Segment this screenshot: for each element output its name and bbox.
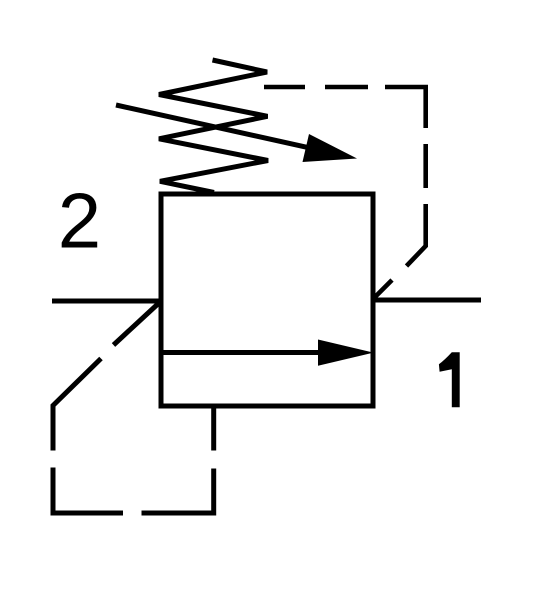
pilot line dash 6 (diagonal to port 1 junction) [373,280,392,299]
drain line dash 2 (bend at left corner) [53,359,101,451]
port 1 line (right) [371,298,481,303]
adjustment arrow shaft [116,105,307,147]
drain line dash 3 (bend at bottom-left corner) [53,468,123,514]
pilot line dash 2 (horizontal) [325,85,368,90]
adjustment arrow head [303,134,358,162]
flow arrow shaft inside box [161,350,322,355]
drain line dash 4 (bend at bottom-right corner) [142,469,214,514]
flow arrow head [318,340,374,366]
pilot line dash 1 (horizontal) [264,85,305,90]
port 2 line (left) [52,299,163,304]
drain line dash 1 (diagonal from port 2 junction) [114,302,161,345]
valve body box [161,194,373,406]
svg-text:2: 2 [58,177,101,265]
label 1 [439,352,460,407]
drain line dash 5 (vertical to box bottom) [211,406,216,451]
pilot line dash 3 (corner top-right) [385,87,426,128]
spring (zigzag) [159,60,268,193]
pilot line dash 5 (bend into diagonal) [407,204,426,266]
pilot line dash 4 (vertical) [423,144,428,188]
